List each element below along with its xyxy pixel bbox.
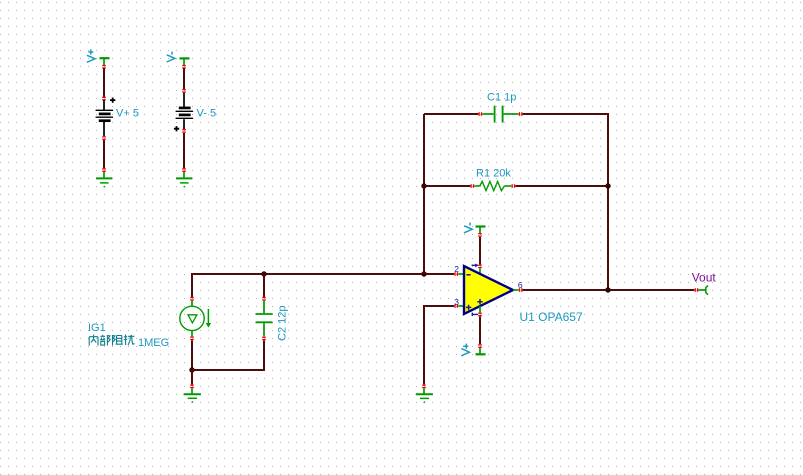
label 内部阻抗 (hand-drawn glyphs) [89, 335, 134, 346]
wire (R1 rail left) [424, 185, 470, 187]
wire (output to Vout terminal) [523, 289, 695, 291]
pin marker (battery V2 + pin) [182, 129, 186, 133]
pin marker (T to wire, battery V+5 top) [102, 65, 106, 69]
pin marker (op-amp V- supply pin) [478, 265, 482, 269]
ground (below op-amp) [416, 388, 433, 402]
power tap T (battery V-5) [180, 58, 190, 65]
pin marker (IG1 top pin) [190, 297, 194, 301]
wire (bottom rail to C2 bottom) [192, 341, 264, 371]
op-amp top supply arrow glyph [472, 264, 479, 268]
svg-text:C2 12p: C2 12p [277, 306, 289, 341]
wire (T to battery V2) [183, 68, 185, 89]
wire (T to battery V1 +) [103, 68, 105, 97]
wire (battery V1 to ground) [103, 140, 105, 168]
power tap T (op-amp top supply) [476, 227, 486, 234]
junction node (R1 right / output rail) [605, 183, 610, 188]
junction node (input rail / feedback rail) [421, 271, 426, 276]
pin marker (ground pin, V1) [102, 168, 106, 172]
jumper V+ (op-amp bottom supply) [461, 344, 469, 356]
svg-text:1MEG: 1MEG [138, 337, 169, 349]
jumper V+ (battery V+5 top) [87, 49, 95, 62]
op-amp supply plus mark [477, 299, 482, 305]
pin marker (op-amp pin 2) [454, 272, 458, 276]
pin marker (battery V1 - pin) [102, 136, 106, 140]
pin marker (C1 left pin) [479, 112, 483, 116]
svg-text:C1 1p: C1 1p [487, 91, 516, 103]
lead (supply pin into op-amp top) [479, 268, 481, 274]
pin marker (op-amp pin 3) [454, 304, 458, 308]
svg-text:V- 5: V- 5 [197, 108, 217, 120]
lead (pin 2 into op-amp) [458, 273, 464, 275]
pin marker (battery V2 - pin) [182, 89, 186, 93]
pin marker (R1 right pin) [512, 184, 516, 188]
pin marker (top T pin) [478, 233, 482, 237]
svg-text:R1 20k: R1 20k [476, 168, 511, 180]
svg-text:Vout: Vout [692, 271, 717, 285]
wire (C2 top branch) [263, 274, 265, 297]
jumper V- (battery V-5 top) [167, 52, 175, 62]
junction node (R1 left) [421, 183, 426, 188]
wire (op-amp to bottom supply T) [479, 317, 481, 345]
op-amp minus input mark [466, 274, 470, 276]
op-amp U1 triangle [464, 266, 513, 314]
wire (C1 right to output rail) [523, 114, 608, 290]
lead (pin 3 into op-amp) [458, 305, 464, 307]
junction node (output rail / output wire) [605, 287, 610, 292]
wire (pin 3 from ground rail) [424, 306, 454, 384]
pin marker (R1 left pin) [471, 184, 475, 188]
capacitor C1 1p [482, 106, 518, 123]
wire (R1 right to output rail) [515, 185, 608, 187]
svg-text:U1 OPA657: U1 OPA657 [520, 310, 583, 324]
capacitor C2 12p [256, 301, 273, 337]
junction node (C2 top / input rail) [261, 271, 266, 276]
wire (junction down to ground, IG1) [191, 370, 193, 384]
pin marker (Vout terminal pin) [695, 288, 699, 292]
current source IG1 [180, 301, 211, 337]
svg-text:IG1: IG1 [88, 322, 106, 334]
pin marker (IG1 bottom pin) [190, 336, 194, 340]
power tap T (battery V+5) [100, 58, 110, 65]
power tap T (op-amp bottom supply) [476, 348, 486, 354]
pin marker (battery V1 + pin) [102, 97, 106, 101]
battery V2 (V- 5) [174, 93, 193, 132]
output terminal Vout [698, 286, 708, 295]
pin marker (op-amp V+ supply pin) [478, 313, 482, 317]
pin marker (T to wire, battery V-5 top) [182, 65, 186, 69]
ground (below battery V2) [176, 172, 192, 187]
ground (below IG1) [184, 388, 201, 402]
wire (top supply to op-amp) [479, 237, 481, 265]
pin marker (C2 bottom pin) [262, 337, 266, 341]
pin marker (ground pin, V2) [182, 168, 186, 172]
pin marker (op-amp pin 6) [519, 288, 523, 292]
wire (battery V2 to ground) [183, 133, 185, 168]
pin marker (ground pin, op-amp) [422, 385, 426, 389]
op-amp bottom supply glyph [472, 313, 478, 316]
jumper V- (op-amp top supply) [464, 223, 472, 233]
op-amp plus input mark [466, 305, 471, 311]
pin marker (bottom T pin) [478, 344, 482, 348]
ground (below battery V1) [96, 172, 112, 187]
pin marker (ground pin, IG1) [190, 385, 194, 389]
pin marker (C2 top pin) [262, 297, 266, 301]
svg-text:V+ 5: V+ 5 [116, 108, 139, 120]
lead (op-amp output pin 6) [513, 289, 519, 291]
battery V1 (V+ 5) [96, 98, 116, 137]
pin marker (C1 right pin) [519, 112, 523, 116]
junction node (IG1 bottom rail) [189, 367, 194, 372]
wire (IG1 top up and right to op-amp pin2) [192, 274, 454, 297]
wire (feedback left rail) [423, 114, 425, 274]
lead (op-amp bottom to supply pin) [479, 306, 481, 313]
wire (IG1 bottom to ground rail) [191, 340, 193, 370]
wire (top rail to C1 left) [424, 113, 478, 115]
svg-text:2: 2 [454, 264, 459, 274]
resistor R1 20k [474, 181, 511, 190]
